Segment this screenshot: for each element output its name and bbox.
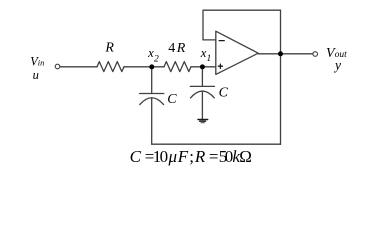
- ground bar 1: [198, 119, 208, 121]
- wire op-amp output: [258, 53, 313, 55]
- svg-text:C: C: [167, 92, 177, 107]
- resistor R: [97, 62, 124, 72]
- capacitor C1 top lead: [151, 67, 153, 94]
- node x2 junction dot: [149, 64, 154, 69]
- output terminal Vout: [313, 52, 318, 57]
- capacitor C2 bottom lead: [201, 91, 203, 119]
- wire bottom return: [152, 143, 281, 145]
- capacitor C2 top lead: [201, 67, 203, 87]
- wire node x1 to op-amp + input: [202, 66, 215, 68]
- capacitor C2 curved plate: [191, 91, 215, 98]
- svg-text:C=10μF;R=50kΩ: C=10μF;R=50kΩ: [130, 147, 252, 166]
- svg-text:R: R: [104, 41, 114, 56]
- wire feedback loop top: [203, 10, 281, 40]
- svg-text:y: y: [333, 58, 341, 73]
- wire node x2 to 4R: [152, 66, 164, 68]
- capacitor C1 bottom lead: [151, 98, 153, 144]
- svg-text:4R: 4R: [168, 41, 186, 56]
- wire 4R to node x1: [191, 66, 202, 68]
- input terminal Vin: [55, 64, 60, 69]
- op-amp U1 plus sign: [218, 64, 222, 68]
- svg-text:u: u: [33, 68, 39, 82]
- wire feedback right vertical: [280, 10, 282, 144]
- op-amp U1 triangle: [216, 31, 258, 74]
- resistor 4R: [164, 62, 191, 72]
- wire input to R: [60, 66, 97, 68]
- node x1 junction dot: [200, 64, 205, 69]
- svg-text:Vin: Vin: [30, 54, 44, 68]
- wire inverting input: [203, 39, 216, 41]
- op-amp U1 minus sign: [219, 40, 224, 42]
- ground bar 2: [200, 120, 206, 122]
- output node junction dot: [278, 51, 283, 56]
- capacitor C1 straight plate: [140, 93, 164, 95]
- svg-text:C: C: [219, 86, 229, 101]
- capacitor C1 curved plate: [140, 98, 164, 105]
- wire R to node x2: [124, 66, 152, 68]
- capacitor C2 straight plate: [190, 85, 214, 87]
- ground bar 3: [201, 122, 204, 124]
